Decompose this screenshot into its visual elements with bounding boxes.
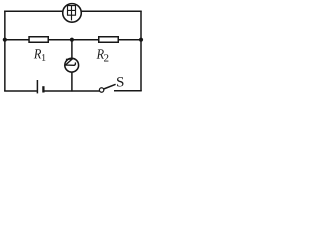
wire bottom rail left segment (4, 90, 37, 92)
meter B (yi) glyph (66, 59, 76, 66)
switch arm (104, 84, 116, 89)
switch pivot circle (99, 88, 103, 92)
meter A (jia) circle (63, 4, 82, 23)
resistor R1 label (34, 49, 41, 58)
wire middle rail right segment (118, 39, 141, 41)
junction dot right (139, 38, 143, 42)
battery long plate (36, 80, 38, 93)
battery short plate (42, 86, 44, 92)
wire middle rail center segment (48, 39, 98, 41)
meter A (jia) glyph (68, 6, 76, 21)
meter B (yi) circle (65, 58, 79, 72)
wire middle rail left segment (4, 39, 29, 41)
wire top rail left segment (4, 10, 63, 12)
junction dot left (3, 38, 7, 42)
junction dot middle (70, 38, 74, 42)
wire top rail right segment (81, 10, 141, 12)
wire meter B top stub (71, 40, 73, 59)
wire left vertical (4, 11, 6, 91)
wire bottom rail middle segment (44, 90, 100, 92)
resistor R1 box (29, 37, 48, 43)
resistor R2 box (99, 37, 119, 43)
switch label S (117, 77, 123, 86)
resistor R2 label (97, 49, 104, 58)
wire meter B bottom stub (71, 72, 73, 91)
wire bottom rail right segment (114, 90, 142, 92)
wire right vertical (140, 11, 142, 91)
